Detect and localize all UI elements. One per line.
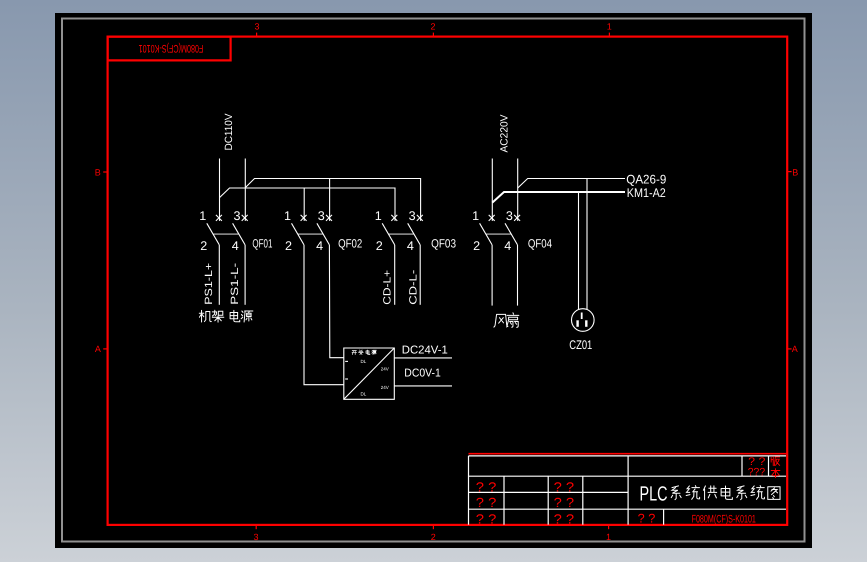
wire DC110V L- drop bbox=[244, 159, 246, 221]
svg-text:4: 4 bbox=[504, 239, 511, 253]
svg-text:PS1-L+: PS1-L+ bbox=[203, 263, 215, 305]
terminal x-mark QF02 pin3 bbox=[326, 215, 332, 221]
svg-text:QF02: QF02 bbox=[338, 237, 362, 251]
svg-text:AC220V: AC220V bbox=[498, 114, 510, 152]
svg-text:? ?: ? ? bbox=[476, 479, 497, 494]
svg-text:CD-L+: CD-L+ bbox=[382, 270, 394, 305]
svg-text:? ?: ? ? bbox=[554, 479, 575, 494]
svg-text:A: A bbox=[792, 344, 798, 354]
terminal x-mark QF03 pin1 bbox=[391, 215, 397, 221]
svg-text:DL: DL bbox=[361, 391, 367, 396]
wire QF04 pin2 to fan bbox=[491, 245, 493, 306]
svg-text:2: 2 bbox=[430, 22, 435, 32]
svg-text:? ?: ? ? bbox=[554, 512, 575, 527]
title block column line g bbox=[768, 456, 770, 476]
breaker QF01 pole2 blade bbox=[233, 223, 246, 245]
wire AC220V phase drop bbox=[491, 159, 493, 221]
svg-text:KM1-A2: KM1-A2 bbox=[627, 186, 666, 200]
socket CZ01 right slot bbox=[585, 320, 587, 327]
wire socket feed from KM1-A2 line bbox=[578, 192, 580, 309]
title block column line f bbox=[741, 456, 743, 476]
power supply U1 diagonal bbox=[344, 348, 395, 399]
svg-text:DC24V-1: DC24V-1 bbox=[402, 344, 448, 356]
breaker QF01 pole1 blade bbox=[207, 223, 220, 245]
label 机架 电源 (rack power) bbox=[199, 310, 211, 322]
breaker QF03 tie bar bbox=[388, 233, 414, 235]
title block column line d bbox=[627, 456, 629, 525]
wire to QA26-9 bbox=[518, 179, 625, 189]
title block outer white border bbox=[469, 456, 787, 525]
title block column line e bbox=[663, 509, 665, 525]
terminal x-mark QF01 pin1 bbox=[216, 215, 222, 221]
U1 input pin tick upper bbox=[345, 360, 348, 362]
title block column line c bbox=[582, 476, 584, 525]
zone tick bottom 1 bbox=[608, 525, 610, 529]
svg-text:3: 3 bbox=[254, 22, 259, 32]
svg-text:2: 2 bbox=[431, 532, 436, 542]
wire QF02 pin2 to PSU lower input bbox=[304, 245, 344, 385]
wire QF03 pin4 output bbox=[419, 245, 421, 305]
svg-text:2: 2 bbox=[200, 239, 207, 253]
title block row line 1 bbox=[469, 475, 787, 477]
breaker QF02 tie bar bbox=[298, 233, 323, 235]
wire upper DC bus (L-) bbox=[245, 179, 420, 221]
svg-text:1: 1 bbox=[472, 209, 479, 223]
svg-text:1: 1 bbox=[375, 209, 382, 223]
wire DC0V-1 output bbox=[394, 385, 452, 387]
wire AC220V neutral drop bbox=[517, 159, 519, 221]
svg-text:???: ??? bbox=[748, 467, 765, 479]
svg-text:CZ01: CZ01 bbox=[569, 338, 592, 352]
svg-text:24V: 24V bbox=[381, 385, 389, 390]
svg-text:B: B bbox=[792, 167, 798, 177]
wire QF02 pin4 to PSU upper input bbox=[329, 245, 343, 358]
zone tick bottom 2 bbox=[432, 525, 434, 529]
breaker QF02 pole1 blade bbox=[292, 223, 305, 245]
wire DC110V L+ drop bbox=[219, 159, 221, 221]
svg-text:1: 1 bbox=[607, 22, 612, 32]
breaker QF04 tie bar bbox=[486, 233, 511, 235]
svg-text:2: 2 bbox=[473, 239, 480, 253]
terminal x-mark QF01 pin3 bbox=[242, 215, 248, 221]
title block top red edge bbox=[469, 453, 788, 455]
svg-text:1: 1 bbox=[606, 532, 611, 542]
svg-text:PS1-L-: PS1-L- bbox=[229, 262, 241, 305]
wire lower bus branch to QF02 pin1 bbox=[303, 188, 305, 221]
wire to KM1-A2 (thick) bbox=[492, 192, 625, 203]
svg-text:DC110V: DC110V bbox=[223, 114, 235, 151]
top-left drawing-number box (red) bbox=[108, 37, 231, 61]
zone tick top 3 bbox=[256, 33, 258, 37]
svg-text:3: 3 bbox=[506, 209, 513, 223]
svg-text:4: 4 bbox=[316, 239, 323, 253]
terminal x-mark QF04 pin1 bbox=[489, 215, 495, 221]
zone tick left B bbox=[103, 171, 107, 173]
svg-text:DC0V-1: DC0V-1 bbox=[404, 368, 441, 380]
svg-text:3: 3 bbox=[409, 209, 416, 223]
title block row line 3 bbox=[469, 508, 787, 510]
breaker QF04 pole2 blade bbox=[505, 223, 518, 245]
svg-text:2: 2 bbox=[285, 239, 292, 253]
svg-text:3: 3 bbox=[318, 209, 325, 223]
svg-text:QF01: QF01 bbox=[252, 237, 272, 251]
svg-text:F080M(CF)S-K0101: F080M(CF)S-K0101 bbox=[692, 513, 756, 525]
breaker QF03 pole2 blade bbox=[408, 223, 421, 245]
svg-text:3: 3 bbox=[253, 532, 258, 542]
svg-text:? ?: ? ? bbox=[638, 512, 656, 526]
svg-text:4: 4 bbox=[232, 239, 239, 253]
svg-text:QF03: QF03 bbox=[431, 237, 456, 251]
socket CZ01 earth slot bbox=[581, 313, 583, 320]
wire DC24V-1 output bbox=[394, 357, 452, 359]
power supply label 开关电源 bbox=[352, 351, 357, 355]
zone tick right A bbox=[787, 348, 791, 350]
zone tick left A bbox=[103, 348, 107, 350]
svg-text:A: A bbox=[95, 344, 101, 354]
U1 input pin tick lower bbox=[345, 378, 348, 380]
breaker QF03 pole1 blade bbox=[382, 223, 395, 245]
svg-text:3: 3 bbox=[233, 209, 240, 223]
terminal x-mark QF02 pin1 bbox=[301, 215, 307, 221]
wire lower DC bus (L+) bbox=[220, 188, 396, 221]
terminal x-mark QF04 pin3 bbox=[514, 215, 520, 221]
socket CZ01 body bbox=[572, 309, 595, 332]
svg-text:? ?: ? ? bbox=[476, 495, 497, 510]
svg-text:? ?: ? ? bbox=[554, 495, 575, 510]
title block column line b bbox=[547, 476, 549, 525]
drawing title 系统供电系统图 bbox=[671, 486, 681, 500]
label 风扇 (fan) bbox=[494, 314, 508, 327]
version header 版本 (vertical) bbox=[771, 457, 780, 466]
title block column line a bbox=[503, 476, 505, 525]
svg-text:F080M(CF)S-K0101: F080M(CF)S-K0101 bbox=[139, 42, 204, 54]
svg-text:1: 1 bbox=[284, 209, 291, 223]
svg-text:QF04: QF04 bbox=[528, 237, 552, 251]
wire QF04 pin4 to fan bbox=[517, 245, 519, 306]
svg-text:24V: 24V bbox=[381, 367, 389, 372]
zone tick bottom 3 bbox=[255, 525, 257, 529]
svg-text:CD-L-: CD-L- bbox=[407, 269, 419, 305]
zone tick right B bbox=[787, 171, 791, 173]
svg-text:QA26-9: QA26-9 bbox=[626, 172, 666, 186]
paper inner border (gray) bbox=[62, 19, 805, 542]
breaker QF02 pole2 blade bbox=[317, 223, 330, 245]
wire QF01 pin2 to rack supply bbox=[218, 245, 220, 305]
wire socket feed from QA26-9 line bbox=[586, 179, 588, 310]
svg-text:PLC: PLC bbox=[640, 483, 668, 506]
title block row line 2 (left section) bbox=[469, 491, 629, 493]
svg-text:B: B bbox=[95, 167, 101, 177]
wire upper bus branch to QF02 pin3 bbox=[329, 179, 331, 221]
wire QF03 pin2 output bbox=[394, 245, 396, 305]
power supply U1 body bbox=[344, 348, 395, 399]
breaker QF01 tie bar bbox=[213, 233, 239, 235]
drawing frame (red) bbox=[108, 37, 788, 525]
breaker QF04 pole1 blade bbox=[480, 223, 493, 245]
zone tick top 1 bbox=[608, 33, 610, 37]
svg-text:DL: DL bbox=[361, 359, 367, 364]
terminal x-mark QF03 pin3 bbox=[417, 215, 423, 221]
svg-text:2: 2 bbox=[376, 239, 383, 253]
zone tick top 2 bbox=[432, 33, 434, 37]
svg-text:1: 1 bbox=[199, 209, 206, 223]
wire QF01 pin4 to rack supply bbox=[244, 245, 246, 305]
svg-text:4: 4 bbox=[407, 239, 414, 253]
socket CZ01 left slot bbox=[576, 320, 578, 327]
svg-text:? ?: ? ? bbox=[476, 512, 497, 527]
